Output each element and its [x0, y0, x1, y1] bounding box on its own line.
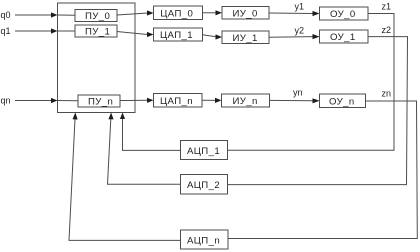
block ADC_2 (АЦП_2) [181, 175, 228, 195]
block IU_0 (ИУ_0) [222, 7, 269, 20]
wire PU_0 to DAC_0 [117, 10, 154, 15]
block OU_n (ОУ_n) [320, 94, 366, 108]
block PU_n [78, 95, 120, 108]
node y2 label [295, 26, 305, 36]
wire IU_0 to OU_0 [269, 11, 320, 16]
svg-text:ПУ_n: ПУ_n [88, 97, 113, 108]
node q1 label [1, 26, 11, 36]
svg-text:z2: z2 [382, 25, 392, 35]
wire DAC_0 to IU_0 [203, 10, 223, 15]
node y1 label [295, 2, 305, 12]
svg-text:ИУ_0: ИУ_0 [233, 9, 258, 20]
wire q1 to PU_1 [58, 30, 76, 32]
wire PU_1 to DAC_1 [117, 32, 154, 38]
svg-text:z1: z1 [382, 2, 392, 12]
wire qn input [15, 98, 58, 103]
svg-text:ЦАП_0: ЦАП_0 [160, 9, 193, 20]
wire IU_n to OU_n [270, 98, 320, 103]
node qn label [1, 96, 11, 106]
wire zn feedback OU_n to ADC_n [228, 101, 417, 239]
block OU_0 (ОУ_0) [320, 7, 369, 20]
svg-text:ОУ_0: ОУ_0 [330, 9, 356, 20]
block ADC_1 (АЦП_1) [181, 141, 228, 160]
svg-text:АЦП_1: АЦП_1 [187, 146, 220, 157]
wire ADC_1 to controller [120, 113, 181, 151]
wire PU_n to DAC_n [120, 98, 154, 103]
svg-text:zn: zn [382, 89, 392, 99]
wire ADC_2 to controller [108, 113, 181, 185]
svg-text:ПУ_0: ПУ_0 [85, 11, 110, 22]
wire qn to PU_n [58, 100, 79, 102]
block OU_1 (ОУ_1) [320, 30, 369, 43]
svg-text:ПУ_1: ПУ_1 [85, 27, 110, 38]
node z1 label [382, 2, 392, 12]
wire z2 feedback OU_1 to ADC_2 [228, 37, 408, 185]
svg-text:ЦАП_1: ЦАП_1 [160, 30, 193, 41]
svg-text:АЦП_n: АЦП_n [187, 236, 220, 247]
node yn label [293, 88, 303, 98]
svg-text:ЦАП_n: ЦАП_n [160, 96, 193, 107]
block IU_n (ИУ_n) [222, 94, 270, 107]
wire DAC_1 to IU_1 [203, 34, 223, 39]
block ADC_n (АЦП_n) [181, 230, 229, 249]
svg-text:y1: y1 [295, 2, 305, 12]
svg-text:ОУ_n: ОУ_n [329, 97, 355, 108]
block DAC_0 (ЦАП_0) [154, 6, 203, 20]
svg-text:qn: qn [1, 96, 11, 106]
wire z1 feedback OU_0 to ADC_1 [228, 14, 395, 151]
wire IU_1 to OU_1 [269, 34, 320, 39]
svg-text:ИУ_1: ИУ_1 [233, 33, 258, 44]
wire q0 to PU_0 [58, 14, 76, 16]
wire q1 input [15, 28, 58, 33]
wire DAC_n to IU_n [202, 98, 222, 103]
svg-text:y2: y2 [295, 26, 305, 36]
wire q0 input [15, 12, 58, 17]
svg-text:ОУ_1: ОУ_1 [330, 32, 356, 43]
block PU_1 [75, 25, 117, 38]
wire ADC_n to controller [69, 113, 181, 241]
svg-text:q0: q0 [1, 10, 11, 20]
block DAC_1 (ЦАП_1) [154, 28, 203, 41]
container block (controller unit outline) [58, 3, 136, 113]
block PU_0 [75, 10, 117, 23]
node q0 label [1, 10, 11, 20]
svg-text:ИУ_n: ИУ_n [233, 96, 258, 107]
svg-text:q1: q1 [1, 26, 11, 36]
block DAC_n (ЦАП_n) [154, 94, 203, 108]
block IU_1 (ИУ_1) [222, 31, 269, 44]
svg-text:АЦП_2: АЦП_2 [187, 180, 220, 191]
svg-text:yn: yn [293, 88, 303, 98]
node zn label [382, 89, 392, 99]
node z2 label [382, 25, 392, 35]
